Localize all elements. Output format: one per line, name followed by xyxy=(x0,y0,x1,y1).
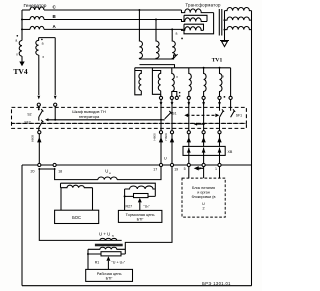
arrow head right feeder xyxy=(194,123,197,126)
junction dot bus to line17 xyxy=(160,119,162,121)
block working circuit xyxy=(86,269,133,281)
terminal circle line19 exit xyxy=(170,131,173,134)
TV1 secondary winding 3 xyxy=(172,68,175,96)
junction dot TV1 phase C xyxy=(138,9,140,11)
TV1 secondary bus lower xyxy=(135,67,231,69)
svg-text:Н606: Н606 xyxy=(164,133,168,141)
connector XB xyxy=(183,146,225,155)
transformer primary winding row 2 xyxy=(182,18,208,22)
junction dot B xyxy=(21,19,23,21)
transformer secondary winding row 3 xyxy=(225,26,252,29)
wire TV4 right lead into bus xyxy=(54,106,56,120)
winding6 polarity dot xyxy=(224,96,226,98)
wire arrow feeder right xyxy=(195,123,203,125)
jumper 20-18 xyxy=(39,168,54,170)
junction dot R1 left xyxy=(87,253,89,255)
secondary left drop xyxy=(87,249,89,269)
TV4 secondary polarity dot xyxy=(41,39,43,41)
transformer secondary winding row 1 xyxy=(225,7,252,10)
svg-text:Блок питания: Блок питания xyxy=(192,186,215,190)
wire winding2 to cabinet xyxy=(160,94,162,96)
TV1 winding3 second lead xyxy=(172,92,177,97)
TV4 polarity dot xyxy=(17,35,19,37)
svg-text:блокировки (в: блокировки (в xyxy=(192,195,216,199)
wire phase C to transformer xyxy=(44,9,182,11)
switch SF2 xyxy=(39,117,44,128)
generator winding phase A xyxy=(30,26,44,29)
transformer primary winding row 3 xyxy=(182,27,204,31)
wire 3 to power block xyxy=(203,167,205,178)
svg-text:18: 18 xyxy=(58,169,62,173)
wire line19 to terminal xyxy=(171,134,174,165)
cabinet dashed box xyxy=(12,107,247,123)
wire Un loop xyxy=(55,169,98,180)
svg-text:а: а xyxy=(176,32,178,36)
svg-text:"Uₙ": "Uₙ" xyxy=(144,205,151,209)
svg-text:и орган: и орган xyxy=(197,191,210,195)
svg-text:х: х xyxy=(42,55,44,59)
terminal 19 xyxy=(170,163,173,166)
arrow head bus left xyxy=(45,118,48,121)
wire 5 to power block xyxy=(188,167,190,178)
transformer primary return row 1 xyxy=(184,15,207,21)
cabinet lower dashed duct xyxy=(12,123,247,128)
TV1 secondary winding 5 xyxy=(204,68,207,96)
switch S1 xyxy=(165,111,173,119)
arrow into cabinet line3 xyxy=(202,102,205,106)
TV1 secondary bus upper xyxy=(140,65,175,68)
wire phase C xyxy=(22,9,30,11)
switch S2 xyxy=(39,106,44,117)
transformer primary outer loop xyxy=(184,13,214,34)
junction dot bus w5 xyxy=(203,67,205,69)
terminal 20 xyxy=(38,163,41,166)
generator winding phase C xyxy=(30,7,44,10)
terminal circle line5 exit xyxy=(187,131,190,134)
svg-text:х: х xyxy=(16,53,18,57)
junction dot bus w6 xyxy=(219,67,221,69)
wire TV4 secondary lead left xyxy=(38,55,40,95)
TV1 secondary winding 6 xyxy=(220,68,223,96)
switch line1 breaker xyxy=(220,100,225,118)
block brake circuit xyxy=(118,210,161,222)
svg-text:SF1: SF1 xyxy=(236,114,242,118)
block power supply dashed xyxy=(182,178,225,217)
svg-text:S1: S1 xyxy=(172,112,176,116)
terminal circle line3 exit xyxy=(202,131,205,134)
dashed signal arrow line xyxy=(187,114,218,116)
ground xyxy=(220,41,229,47)
terminal circle winding4 xyxy=(187,96,190,99)
wire TV4 secondary top xyxy=(39,37,56,39)
terminal circle winding5 xyxy=(202,96,205,99)
wire line 19 through cabinet xyxy=(171,100,173,131)
TV1 primary polarity dot xyxy=(181,38,183,40)
wire phase A to transformer xyxy=(44,28,183,30)
svg-text:5: 5 xyxy=(184,167,186,171)
svg-text:н: н xyxy=(109,171,111,175)
svg-text:Н600: Н600 xyxy=(153,133,157,141)
outer loop bottom edge xyxy=(22,285,252,287)
svg-text:Трансформатор: Трансформатор xyxy=(185,2,221,7)
terminal circle left lead xyxy=(37,103,40,106)
transformer working primary xyxy=(100,238,117,240)
svg-text:19: 19 xyxy=(174,168,178,172)
svg-text:БТГ: БТГ xyxy=(137,217,145,222)
terminal 5 xyxy=(187,163,190,166)
svg-text:"U + Uₙ": "U + Uₙ" xyxy=(112,261,126,265)
TV1 open-delta winding 1 xyxy=(135,68,142,95)
terminal circle winding3 xyxy=(170,96,173,99)
svg-text:17: 17 xyxy=(153,168,157,172)
junction dot TV1 phase A xyxy=(171,28,173,30)
svg-text:н: н xyxy=(112,234,114,238)
svg-text:U: U xyxy=(105,169,108,174)
svg-text:U: U xyxy=(202,202,205,206)
terminal 3 xyxy=(202,163,205,166)
junction dot TV1 phase B xyxy=(155,19,157,21)
transformer TV4 primary winding xyxy=(19,41,22,57)
TV1 primary winding phase C xyxy=(139,10,142,59)
wire phase B to transformer xyxy=(44,19,182,21)
svg-text:генератора: генератора xyxy=(79,114,100,119)
svg-text:а: а xyxy=(42,41,44,45)
wire line3 to connector xyxy=(202,134,205,165)
terminal 1 xyxy=(218,163,221,166)
wire line1 to connector xyxy=(218,134,221,165)
terminal circle S2 line xyxy=(38,131,41,134)
transformer primary return row 2 xyxy=(184,24,204,30)
arrow tap under bus xyxy=(195,167,204,170)
wire line 3 through cabinet xyxy=(203,100,205,131)
svg-text:БРЭ 1301.01: БРЭ 1301.01 xyxy=(202,281,231,286)
terminal circle bus drop xyxy=(229,96,232,99)
TV4 secondary winding xyxy=(36,38,39,55)
terminal circle winding2 xyxy=(159,96,162,99)
potentiometer R27 xyxy=(125,195,156,197)
transformer core xyxy=(219,9,222,36)
terminal 17 xyxy=(159,163,162,166)
TV1 bus end drop xyxy=(230,68,232,96)
transformer primary winding row 1 xyxy=(182,9,214,13)
main bus wire xyxy=(22,164,252,166)
transformer working core xyxy=(95,244,123,245)
TV1 primary neutral tick xyxy=(175,54,177,56)
wire U drop from 19 xyxy=(125,167,172,254)
junction dot right lead on bus wire xyxy=(54,119,56,121)
arrow up S2 line xyxy=(38,134,41,165)
transformer secondary common vertical xyxy=(224,11,226,41)
svg-text:660В: 660В xyxy=(31,135,35,142)
arrow into cabinet line19 xyxy=(171,102,174,106)
junction dot A xyxy=(21,28,23,30)
junction dot secondary row3 xyxy=(224,29,226,31)
svg-text:ХВ: ХВ xyxy=(228,150,233,154)
wire S2 line below cabinet xyxy=(38,128,40,131)
TV1 primary winding phase A xyxy=(172,29,175,59)
wire brake feeder xyxy=(61,183,156,196)
wire Un to 17 xyxy=(117,167,161,180)
terminal circle winding3b xyxy=(175,96,178,99)
terminal circle line1 exit xyxy=(218,131,221,134)
svg-text:20: 20 xyxy=(31,169,35,173)
block BOS xyxy=(55,210,99,223)
brake left drop xyxy=(124,189,126,210)
svg-text:TV4: TV4 xyxy=(13,67,28,76)
TV1 primary winding phase B xyxy=(156,20,159,60)
svg-text:R27: R27 xyxy=(126,205,133,209)
wire phase A xyxy=(22,28,30,30)
svg-text:БТГ: БТГ xyxy=(106,276,114,281)
TV1 secondary winding 4 xyxy=(189,68,192,96)
outer loop right edge xyxy=(251,11,253,286)
wire TV4 feeder vertical xyxy=(21,10,23,41)
TV4 ground arrow xyxy=(21,56,23,61)
transformer primary left edge links xyxy=(183,15,185,30)
junction dot secondary row2 xyxy=(224,19,226,21)
R1 wiper xyxy=(106,256,110,261)
svg-text:1: 1 xyxy=(215,167,217,171)
svg-text:а: а xyxy=(15,39,17,43)
arrow into cabinet line1 xyxy=(218,102,221,106)
transformer working secondary xyxy=(88,247,125,249)
svg-text:S2: S2 xyxy=(27,113,31,117)
svg-text:БОС: БОС xyxy=(72,215,81,220)
terminal circle line17 exit xyxy=(159,131,162,134)
potentiometer R1 xyxy=(88,253,125,255)
outer loop left edge xyxy=(21,165,23,286)
svg-text:U: U xyxy=(164,157,167,161)
wire 1 to power block xyxy=(219,167,221,178)
svg-text:SF2: SF2 xyxy=(24,121,30,125)
wire cabinet bus with arrow xyxy=(47,119,165,121)
breaker SF1 xyxy=(231,100,236,118)
terminal circle winding6 xyxy=(218,96,221,99)
svg-text:2: 2 xyxy=(202,207,204,211)
arrow into cabinet left lead xyxy=(37,96,40,100)
svg-text:U + U: U + U xyxy=(99,232,110,237)
wire line 17 through cabinet xyxy=(160,100,162,131)
terminal circle right lead xyxy=(54,103,57,106)
wire line17 to terminal xyxy=(160,134,163,165)
wire TV4 secondary lead right xyxy=(54,38,56,95)
svg-text:R1: R1 xyxy=(95,261,100,265)
wire line 1 through cabinet xyxy=(219,117,221,130)
transformer secondary winding row 2 xyxy=(225,17,252,20)
terminal 18 xyxy=(53,163,56,166)
arrow into cabinet line5 xyxy=(187,102,190,106)
junction dot right feeder xyxy=(203,123,205,125)
arrow into cabinet line17 xyxy=(160,102,163,106)
wire phase B xyxy=(22,19,30,21)
arrow into cabinet right lead xyxy=(54,96,57,100)
svg-text:TV1: TV1 xyxy=(212,58,223,64)
generator winding phase B xyxy=(30,17,44,20)
junction dot brake left xyxy=(124,195,126,197)
wire feed from 20 xyxy=(39,169,121,240)
TV1 open-delta winding 2 xyxy=(152,68,160,95)
brake winding xyxy=(125,186,156,189)
TV1 primary neutral bus xyxy=(139,55,176,59)
winding3 polarity dots xyxy=(179,92,180,93)
wire line 5 through cabinet xyxy=(188,100,190,131)
BOS choke xyxy=(61,183,93,210)
R27 wiper xyxy=(138,198,142,203)
winding Un xyxy=(98,177,117,180)
wire line5 to connector xyxy=(187,134,190,165)
